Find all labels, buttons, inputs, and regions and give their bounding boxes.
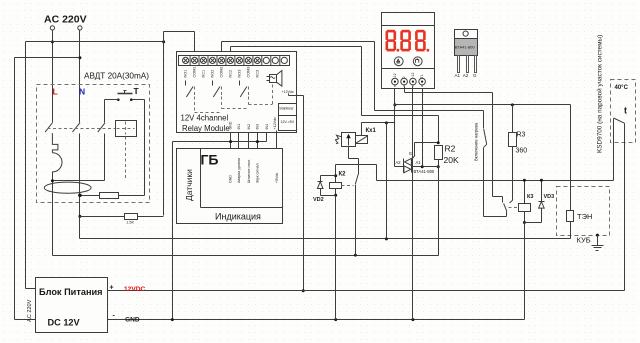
buzzer xyxy=(270,75,277,83)
node test contact left xyxy=(117,98,120,101)
wire net B to heater enable switch xyxy=(375,110,484,112)
svg-text:T: T xyxy=(134,86,140,96)
pin +5V from stabilizer to GB xyxy=(276,131,278,149)
wire K2 return to GND xyxy=(335,196,337,320)
svg-text:-12: -12 xyxy=(393,73,397,78)
svg-text:0: 0 xyxy=(402,77,406,79)
svg-text:20K: 20K xyxy=(444,155,459,165)
display lid divider xyxy=(382,25,435,27)
wire +12V riser down to supply bus xyxy=(303,96,305,291)
svg-text:40°C: 40°C xyxy=(615,85,629,91)
relay coil K2 xyxy=(330,183,342,189)
resistor R2 xyxy=(435,146,443,160)
display terminal divider xyxy=(382,68,435,70)
svg-text:GND: GND xyxy=(125,317,140,324)
svg-text:VD2: VD2 xyxy=(313,197,324,203)
svg-text:GND: GND xyxy=(229,121,233,129)
pin IN4 of module xyxy=(266,133,268,142)
svg-text:12VDC: 12VDC xyxy=(124,286,145,293)
junction VD3 top xyxy=(540,179,543,182)
junction L tap xyxy=(51,40,54,43)
KSD blade xyxy=(614,118,625,123)
wire KSD left terminal xyxy=(613,119,615,181)
svg-text:Stabilizer: Stabilizer xyxy=(279,107,294,111)
wire R2 bottom to A1 xyxy=(438,160,440,167)
wire N feed to power supply xyxy=(15,57,80,59)
breaker pole N blade xyxy=(72,123,80,132)
diode VD3 xyxy=(541,181,543,202)
svg-text:A2: A2 xyxy=(463,73,469,78)
svg-text:+: + xyxy=(110,285,114,292)
wire K2 coil bottom xyxy=(335,189,337,196)
junction 1.5K on N xyxy=(78,215,81,218)
svg-text:t: t xyxy=(624,106,627,116)
svg-text:Штатное откл.: Штатное откл. xyxy=(247,159,251,183)
wire +12V stub into module xyxy=(288,94,290,96)
RCD coil dashed link down xyxy=(125,137,127,180)
svg-text:Блок Питания: Блок Питания xyxy=(39,287,103,297)
buzzer dashed link xyxy=(272,85,274,105)
svg-text:АВДТ 20A(30mA): АВДТ 20A(30mA) xyxy=(84,72,149,81)
junction L riser tap xyxy=(162,40,165,43)
junction T1 net xyxy=(393,103,396,106)
svg-text:IN3: IN3 xyxy=(256,124,260,130)
wire N to 1.5K xyxy=(80,216,125,218)
pin IN1 of module xyxy=(238,133,240,149)
junction GND pin xyxy=(229,140,232,143)
svg-text:NO2: NO2 xyxy=(211,70,215,78)
relay module terminal screws xyxy=(183,57,189,63)
wire switch lower to K3 contact xyxy=(483,148,485,217)
wire test resistor to N xyxy=(80,195,100,197)
svg-text:12V->5V: 12V->5V xyxy=(281,120,295,124)
junction test resistor on N xyxy=(78,194,82,198)
current transformer ellipse xyxy=(44,182,91,193)
valve spring xyxy=(335,135,341,143)
wire gate to R2 junction xyxy=(415,142,439,144)
pin IN3 of module xyxy=(257,133,259,149)
breaker L magnetic release half-circle xyxy=(52,153,62,172)
svg-text:A1: A1 xyxy=(416,160,422,165)
wire K3 return to GND xyxy=(524,223,526,320)
svg-text:A1: A1 xyxy=(455,73,461,78)
wire COM2 terminal up and right (net B) xyxy=(221,42,223,52)
svg-text:COM3: COM3 xyxy=(246,67,250,78)
svg-text:L: L xyxy=(53,87,58,97)
wire display T4 drop xyxy=(422,86,424,167)
svg-text:12V 4channel: 12V 4channel xyxy=(181,114,229,123)
svg-text:Кх1: Кх1 xyxy=(366,128,377,134)
thermostat display unit box xyxy=(382,13,435,89)
ground symbol xyxy=(597,236,599,246)
switch Включение нагрева blade xyxy=(484,129,487,144)
wire display T1 output xyxy=(394,86,396,105)
RCD trip coil box xyxy=(116,121,137,137)
junction K3 top xyxy=(523,179,526,182)
svg-text:A2: A2 xyxy=(396,160,402,165)
wire K2 coil top bus xyxy=(336,164,377,166)
heater dashed box КУБ xyxy=(557,187,610,236)
svg-text:IN2: IN2 xyxy=(247,124,251,130)
wire K2 coil top xyxy=(335,165,337,183)
solenoid valve Кх1 body xyxy=(342,133,356,147)
junction R2 top xyxy=(437,141,440,144)
svg-text:КУБ: КУБ xyxy=(577,236,591,245)
wire +12VDC bus xyxy=(108,290,625,292)
svg-text:NO3: NO3 xyxy=(237,70,241,78)
junction test tap on L xyxy=(51,179,54,182)
junction GND riser xyxy=(171,318,174,321)
wire 1.5K to L riser xyxy=(138,216,164,218)
svg-text:COM1: COM1 xyxy=(193,67,197,78)
wire GND bus from supply xyxy=(108,319,525,321)
svg-text:~12: ~12 xyxy=(411,73,415,79)
breaker mechanical trip dashed linkage xyxy=(48,128,116,130)
switch Включение нагрева upper stub xyxy=(483,111,485,129)
junction valve net to N xyxy=(385,121,388,124)
svg-text:Индикация: Индикация xyxy=(215,212,261,222)
resistor test (breaker internal) xyxy=(100,193,119,199)
resistor R3 xyxy=(509,133,517,147)
triac BTA41-800 package body xyxy=(455,39,478,56)
svg-text:+12Vdc: +12Vdc xyxy=(282,90,294,94)
svg-text:T1: T1 xyxy=(420,74,424,78)
heater element ТЭН xyxy=(567,211,574,222)
junction IN3 pin xyxy=(256,140,259,143)
junction display GND return xyxy=(411,318,414,321)
svg-text:Звук.сигнал: Звук.сигнал xyxy=(256,163,260,183)
svg-text:R3: R3 xyxy=(517,132,526,139)
wire K3 coil bottom xyxy=(524,212,526,223)
junction VD2 top xyxy=(334,174,337,177)
power supply unit box xyxy=(36,278,108,333)
junction +12V riser xyxy=(302,289,305,292)
node AC 220V terminal N xyxy=(78,26,82,30)
wire net A to R2 top xyxy=(362,115,439,117)
svg-text:NC1: NC1 xyxy=(202,70,206,78)
breaker L thermal release zigzag xyxy=(52,133,58,153)
pin IN2 of module xyxy=(248,133,250,149)
buzzer squiggle xyxy=(270,77,275,79)
svg-text:G: G xyxy=(473,73,477,78)
wire N from terminal down into breaker xyxy=(79,31,81,123)
svg-text:VD3: VD3 xyxy=(544,194,555,200)
wire L pole lower down through CT ellipse xyxy=(52,172,54,256)
svg-text:AC 220V: AC 220V xyxy=(44,14,87,26)
junction R3 top xyxy=(511,103,514,106)
wire test right contact to resistor riser xyxy=(132,99,145,101)
svg-text:N: N xyxy=(79,87,85,97)
wire GND riser down to supply xyxy=(172,142,174,320)
svg-text:К2: К2 xyxy=(339,172,347,178)
thermal switch KSD9700 dashed box xyxy=(611,80,636,143)
display digits 888 xyxy=(386,30,430,52)
relay module terminal strip xyxy=(179,56,290,66)
triac gate lead xyxy=(411,155,415,160)
wire valve body down to K2 contact xyxy=(348,147,350,159)
svg-text:GND: GND xyxy=(229,175,233,183)
test button stem xyxy=(124,91,126,94)
display button 1 xyxy=(394,57,403,66)
wire K3 coil top xyxy=(524,181,526,204)
junction valve return on N bus xyxy=(385,237,388,240)
valve coil Кх1 xyxy=(356,136,368,144)
controller ГБ box xyxy=(177,149,283,224)
junction K2 contact on L bus xyxy=(354,254,357,257)
breaker АВДТ dashed enclosure xyxy=(37,85,150,203)
svg-text:DC 12V: DC 12V xyxy=(48,318,81,328)
svg-text:ГБ: ГБ xyxy=(201,152,219,168)
resistor 1.5K xyxy=(125,214,138,220)
display button glyphs xyxy=(397,58,419,63)
svg-text:COM2: COM2 xyxy=(219,67,223,78)
wire riser to COM1 and down to 1.5K xyxy=(163,32,165,216)
svg-text:Включение нагрева: Включение нагрева xyxy=(474,122,479,161)
svg-text:Авария уровня: Авария уровня xyxy=(237,158,241,183)
wire KSD right terminal to +12V xyxy=(624,124,626,291)
wire N bus horizontal xyxy=(80,238,571,240)
svg-text:G: G xyxy=(409,151,412,156)
triac VS1 symbol xyxy=(403,159,405,173)
svg-text:+12Vdc: +12Vdc xyxy=(273,117,277,129)
wire A2 to triac xyxy=(395,166,404,168)
svg-text:Relay Module: Relay Module xyxy=(182,124,230,133)
valve arrow xyxy=(348,137,350,146)
node AC 220V terminal L xyxy=(50,26,54,30)
display button 2 xyxy=(413,57,422,66)
wire K2 contact lower to L bus xyxy=(355,185,357,256)
junction K3 bottom xyxy=(523,221,526,224)
relay module internal dashed routing xyxy=(194,97,196,113)
wire L from terminal down into breaker xyxy=(52,31,54,123)
dashed link K2 coil to contact xyxy=(342,185,354,187)
contact K2 blade xyxy=(355,175,358,185)
svg-text:NO1: NO1 xyxy=(184,70,188,78)
wire R3 bottom to contact xyxy=(512,147,514,201)
relay coil K3 xyxy=(519,204,531,212)
relay module U1 box xyxy=(177,52,297,133)
wire test pole lower to L tap xyxy=(104,134,106,181)
wire display T3 GND return xyxy=(412,87,414,320)
junction K2 coil return xyxy=(334,318,337,321)
triac package legs xyxy=(458,56,460,73)
relay module contact symbols xyxy=(185,81,187,86)
wire R3 top xyxy=(512,105,514,133)
junction VD2 bottom xyxy=(334,194,337,197)
wire L feed to power supply (left drop) xyxy=(26,41,53,43)
svg-text:AC 220V: AC 220V xyxy=(27,299,33,322)
svg-text:1.5K: 1.5K xyxy=(126,221,134,225)
wire L feed to relay module COM1 xyxy=(53,41,164,43)
stabilizer box xyxy=(279,104,297,131)
junction T4 on A1 xyxy=(421,165,424,168)
dashed link K3 coil to contact xyxy=(509,207,519,209)
ГБ sensors divider xyxy=(200,149,202,208)
breaker test pole blade xyxy=(98,123,105,132)
junction ground on heater box xyxy=(596,234,599,237)
pin GND of module xyxy=(230,133,232,149)
svg-text:KSD9700 (на паровой участок си: KSD9700 (на паровой участок системы) xyxy=(596,35,604,153)
svg-text:+5Vdc: +5Vdc xyxy=(275,173,279,183)
junction N tap xyxy=(78,56,81,59)
wire valve net riser down to N bus xyxy=(386,123,388,239)
svg-text:R2: R2 xyxy=(445,144,456,154)
svg-text:IN4: IN4 xyxy=(265,124,269,130)
wire display T2 to heater switch xyxy=(404,87,406,93)
svg-text:Датчики: Датчики xyxy=(184,169,194,201)
wire T1 net to heater top xyxy=(395,104,571,106)
svg-text:ВТА41-800: ВТА41-800 xyxy=(414,169,435,174)
display terminal screws xyxy=(392,78,399,85)
svg-text:360: 360 xyxy=(516,148,528,155)
junction R2 bottom A1 xyxy=(437,165,440,168)
wire heater bottom to N bus xyxy=(570,222,572,239)
node test contact right xyxy=(130,98,133,101)
RCD coil internal dashed cross xyxy=(125,122,127,135)
contact K3 blade xyxy=(504,203,507,211)
triac BTA41-800 package flange xyxy=(455,30,478,39)
diode VD2 xyxy=(321,175,336,177)
ГБ indication divider xyxy=(201,207,283,209)
wire A1 horizontal xyxy=(412,166,439,168)
breaker pole L blade xyxy=(45,123,52,132)
wire test pole from left contact xyxy=(105,99,119,101)
wire N pole lower down through CT ellipse xyxy=(79,134,81,239)
wire T2 riser to K3 contact top xyxy=(492,93,494,197)
wire A1 down to L bus xyxy=(438,167,440,256)
wire A2 riser xyxy=(394,105,396,167)
wire valve coil top to N riser (net D) xyxy=(361,123,363,136)
svg-text:NC2: NC2 xyxy=(228,70,232,78)
svg-text:IN1: IN1 xyxy=(237,124,241,130)
wire GND bus under module xyxy=(173,141,267,143)
test button bar xyxy=(118,93,133,95)
wire NC2 terminal up and right (net A gate drive) xyxy=(230,47,232,52)
svg-text:ТЭН: ТЭН xyxy=(577,212,592,221)
svg-text:ВТА41-800: ВТА41-800 xyxy=(455,45,476,50)
wire L bus horizontal to triac xyxy=(53,255,439,257)
wire heater top riser xyxy=(570,105,572,211)
svg-text:К3: К3 xyxy=(527,194,533,200)
svg-text:NC3: NC3 xyxy=(255,70,259,78)
wire relay coil supply bus to KSD xyxy=(377,180,614,182)
